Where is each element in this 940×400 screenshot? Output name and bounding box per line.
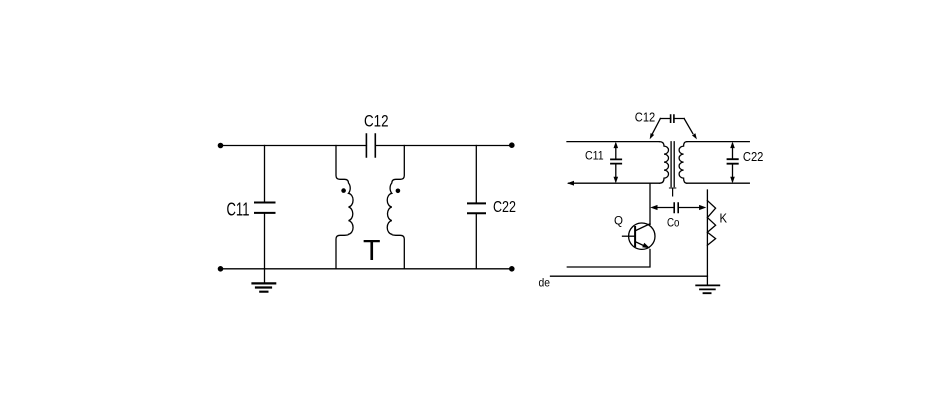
inductor: transformer T primary (left winding): [336, 146, 353, 269]
wire: emitter down + bottom-left wire: [567, 250, 650, 268]
ground (left circuit): [264, 269, 266, 283]
inductor: transformer left winding (right circuit): [660, 142, 669, 184]
label C11: [227, 200, 250, 220]
node: top-right terminal dot: [509, 142, 515, 148]
wire: K to ground: [706, 276, 708, 285]
svg-text:K: K: [720, 211, 728, 226]
wire: upper-right rail: [687, 141, 750, 143]
crystal K: zigzag: [707, 201, 715, 246]
arrowhead: C22 down: [730, 177, 735, 184]
label K: [720, 211, 728, 226]
wire: collector drop from lower-left rail: [649, 183, 651, 224]
label Co: [667, 215, 680, 229]
transistor Q1: circle: [629, 223, 655, 249]
label T (right circuit): [669, 184, 677, 199]
wire: top rail right segment (C12 to node B): [375, 145, 512, 147]
capacitor C11 (left shunt) with connecting wires: [264, 146, 266, 203]
wire: C12 left diagonal with arrowhead: [653, 119, 661, 134]
capacitor C11 (right circuit) with up/down arrows: [615, 144, 617, 181]
wire: de line: [551, 275, 708, 277]
arrowhead: C11 up: [614, 142, 619, 149]
svg-text:Co: Co: [667, 215, 680, 229]
svg-text:C22: C22: [493, 199, 516, 216]
transistor Q1: base lead: [623, 235, 636, 237]
wire: upper-left rail: [567, 141, 660, 143]
svg-text:de: de: [539, 276, 551, 290]
transistor Q1: collector diagonal: [635, 224, 650, 231]
wire: C12 right diagonal with arrowhead: [684, 119, 693, 134]
wire: lower-left rail: [569, 182, 660, 184]
inductor: transformer T secondary (right winding): [387, 146, 404, 269]
node: bottom-left terminal dot: [218, 266, 224, 272]
capacitor C12 (top, right circuit): [671, 115, 674, 122]
arrowhead: C22 up: [730, 142, 735, 149]
arrowhead: emitter: [642, 243, 650, 249]
node: bottom-right terminal dot: [509, 266, 515, 272]
inductor: transformer right winding (right circuit): [679, 142, 687, 184]
wire: top rail left segment (node A to C12): [220, 145, 366, 147]
wire: lower-right rail: [687, 182, 750, 184]
crystal K: vertical line: [706, 190, 708, 276]
svg-text:C11: C11: [585, 149, 604, 163]
label C22 (right): [743, 149, 764, 164]
transistor Q1: base bar: [634, 227, 636, 246]
label T (left circuit transformer): [363, 235, 381, 267]
label de: [539, 276, 551, 290]
svg-text:T: T: [669, 184, 677, 199]
label C11 (right): [585, 149, 604, 163]
capacitor Co plates: [674, 203, 678, 213]
svg-text:C11: C11: [227, 200, 250, 220]
capacitor C22 (right circuit) with up/down arrows: [732, 144, 734, 181]
svg-text:C12: C12: [635, 110, 655, 125]
arrowhead: lower-left rail pointing left: [567, 181, 574, 186]
arrowhead: Co line pointing left: [650, 205, 657, 210]
svg-text:Q: Q: [614, 214, 623, 228]
capacitor C22 (right shunt) with connecting wires: [475, 146, 477, 204]
transformer core lines: [671, 142, 674, 187]
node: phase dot primary: [341, 188, 346, 193]
label Q: [614, 214, 623, 228]
label C22: [493, 199, 516, 216]
arrowhead: C11 down: [614, 177, 619, 184]
wire: bottom rail: [220, 268, 512, 270]
label C12 (right circuit): [635, 110, 655, 125]
svg-text:C22: C22: [743, 149, 764, 164]
capacitor C12 (series, left circuit): [366, 134, 375, 157]
svg-text:T: T: [363, 235, 381, 267]
svg-text:C12: C12: [364, 112, 389, 131]
ground (right circuit): [696, 285, 719, 293]
wire: Co link line with arrows both ends: [655, 207, 700, 209]
node: phase dot secondary: [396, 189, 401, 194]
label C12: [364, 112, 389, 131]
node: top-left terminal dot: [218, 143, 224, 149]
transistor Q1: emitter diagonal: [635, 242, 645, 247]
arrowhead: Co line pointing right: [699, 205, 706, 210]
